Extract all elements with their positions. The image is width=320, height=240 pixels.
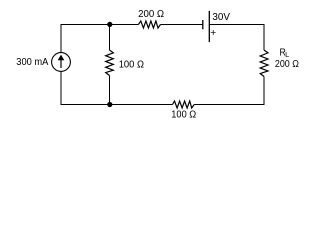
battery V1 long plate (positive): [208, 11, 210, 42]
resistor R1 200 ohm (top horizontal zigzag): [138, 21, 160, 28]
svg-text:L: L: [285, 50, 289, 59]
label 200 ohm: [138, 9, 164, 20]
current source I1 arrow: [58, 55, 65, 68]
battery V1 short plate (negative): [202, 20, 204, 29]
label RL: [280, 48, 290, 59]
label 100 ohm (middle): [119, 60, 145, 71]
resistor R2 100 ohm (middle vertical zigzag): [106, 50, 114, 76]
wire from R1 to battery: [161, 24, 203, 26]
wire top-left segment: [61, 25, 138, 53]
wire middle branch lower stub: [109, 76, 111, 105]
label 300 mA: [16, 57, 48, 68]
label 200 ohm (RL value): [275, 59, 299, 70]
node junction bottom: [107, 102, 112, 107]
svg-text:100 Ω: 100 Ω: [119, 60, 145, 71]
svg-text:100 Ω: 100 Ω: [171, 110, 196, 121]
current source I1 circle: [52, 53, 71, 72]
label 100 ohm (bottom): [171, 110, 196, 121]
wire bottom-left segment: [61, 72, 173, 105]
resistor RL 200 ohm (right vertical zigzag): [260, 50, 268, 77]
svg-text:300 mA: 300 mA: [16, 57, 48, 68]
resistor R3 100 ohm (bottom horizontal zigzag): [173, 101, 195, 108]
wire from battery to top-right corner and down: [209, 25, 264, 51]
wire right branch lower: [194, 77, 264, 105]
wire middle branch upper stub: [109, 25, 111, 51]
svg-text:30V: 30V: [212, 12, 230, 23]
node junction top: [107, 22, 112, 27]
label + polarity: [210, 28, 216, 39]
label 30V: [212, 12, 230, 23]
svg-text:200 Ω: 200 Ω: [138, 9, 164, 20]
svg-text:200 Ω: 200 Ω: [275, 59, 299, 70]
svg-text:+: +: [210, 28, 216, 39]
